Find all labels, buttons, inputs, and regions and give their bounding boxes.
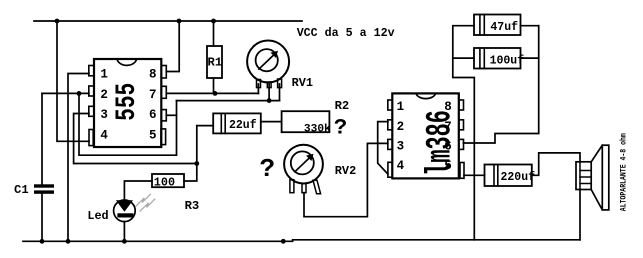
wire 100uf right lead [521,57,539,59]
resistor R1 bottom lead [213,78,215,93]
wire RV1 wiper bus to 555 pin6 [177,100,280,102]
wire LED to ground [123,222,125,242]
LED triangle [116,200,133,212]
wire 47uf right lead [521,25,539,27]
svg-text:5: 5 [149,128,157,142]
IC LM386 pin 4 stub [388,162,392,177]
svg-text:100: 100 [154,176,175,190]
IC LM386 pin 1 stub [388,100,393,110]
capacitor 22uf plates [221,113,225,133]
svg-text:22uf: 22uf [229,119,257,132]
wire VCC top rail [34,20,302,22]
LED circle [114,200,136,222]
IC LM386 pin 3 stub [388,139,393,149]
potentiometer RV1 inner circle [256,49,278,71]
svg-text:330k: 330k [304,123,331,135]
wire 22uf to 330k [261,121,282,123]
wire 100uf left lead [453,57,474,59]
ground bottom rail right segment [293,239,580,241]
node junction dot pin1 ground [66,239,71,244]
IC 555 pin 5 stub [161,129,166,145]
potentiometer RV2 right pin (bent) [313,180,321,194]
IC 555 pin 1 stub [89,66,94,76]
wire 555 pin6 stub to tie line [166,114,176,116]
wire pin2 to pin6 tie (down, across, up) [79,93,177,155]
svg-text:2: 2 [100,88,108,102]
svg-text:6: 6 [149,108,157,122]
node junction dot pin2 wire [77,91,82,96]
wire 220uf to speaker [532,153,580,175]
wire C1 bottom lead to ground [41,194,43,242]
wire LM386 pin6 to supply caps [464,26,539,143]
wire 555 pin1 to ground [68,74,89,242]
IC 555 pin 7 stub [161,86,166,98]
resistor R3 100 body [152,174,184,187]
wire C1 top lead [41,93,43,184]
node junction dot VCC-pin8 line [177,19,182,24]
node junction dot C1 ground [40,239,45,244]
resistor R2 330k body [282,111,330,132]
svg-text:RV1: RV1 [292,76,313,90]
svg-text:555: 555 [112,83,143,121]
svg-text:3: 3 [100,108,108,122]
capacitor 100uf plates [480,48,484,69]
potentiometer RV1 middle pin [267,82,271,88]
capacitor 47uf body [474,15,521,36]
capacitor 47uf plates [480,15,484,36]
IC 555 body [94,59,161,147]
IC LM386 pin 8 stub [459,100,464,110]
resistor R1 top lead [213,21,215,46]
potentiometer RV1 arrow [259,54,275,69]
svg-text:1: 1 [397,100,405,114]
svg-text:4: 4 [100,128,108,142]
capacitor C1 bottom plate [34,190,54,193]
speaker coil box [576,162,591,190]
svg-text:7: 7 [149,88,157,102]
wire RV2 wiper to LM386 pin3 [304,143,388,216]
speaker coil inner line [579,162,581,190]
IC 555 pin 2 stub [89,86,94,96]
wire 555 pin3 output (left, down, right) [74,114,197,164]
IC 555 pin 6 stub [161,110,166,121]
svg-text:R3: R3 [185,199,200,213]
svg-text:47uf: 47uf [490,21,518,34]
wire R3 to LED [124,181,152,200]
LED emission arrows (gray) [136,194,155,211]
IC 555 pin 4 stub [89,130,93,146]
svg-text:lm386: lm386 [421,110,461,176]
IC 555 pin 3 stub [89,106,94,116]
svg-text:?: ? [260,154,276,184]
wire RV1 right pin down [279,84,281,101]
svg-text:R1: R1 [208,56,223,70]
node junction dot LED ground [122,239,127,244]
wire RV1 left pin down [257,84,259,93]
IC LM386 body [392,93,459,178]
potentiometer RV2 middle pin [302,184,306,193]
node junction dot RV1 wiper [267,98,272,103]
svg-text:3: 3 [397,139,405,153]
node junction dot on ground rail [281,239,286,244]
potentiometer RV1 left pin [257,80,261,88]
node junction dot VCC-pin4 line [55,19,60,24]
speaker cone top diagonal [591,145,602,162]
node junction dot pin3 output node [194,161,199,166]
svg-text:8: 8 [149,68,157,82]
IC LM386 pin 7 stub [459,120,464,130]
svg-text:R2: R2 [335,99,350,113]
node junction dot R1-pin7 [213,91,218,96]
capacitor 100uf body [474,48,521,69]
wire 555 pin7 to RV1 left pin [166,92,258,94]
wire LM386 pin2 to pin4 (with diagonal) [378,122,388,175]
wire RV1 middle pin down [268,84,270,101]
capacitor 22uf body [213,113,261,133]
capacitor 220uf plates [494,165,498,187]
svg-text:220uf: 220uf [501,171,536,184]
svg-text:4: 4 [397,159,405,173]
svg-text:VCC da 5 a 12v: VCC da 5 a 12v [297,26,395,40]
LED cathode bar [117,213,133,217]
wire caps left side to ground [453,26,475,240]
svg-text:2: 2 [397,120,405,134]
potentiometer RV2 inner circle [291,151,314,174]
wire 555 pin8 to VCC rail [166,21,179,72]
speaker coil dividers [580,171,591,184]
capacitor 220uf body [485,165,532,187]
potentiometer RV1 right pin [278,79,282,88]
IC LM386 pin 6 stub [459,139,464,149]
speaker front panel [602,145,609,210]
wire output node up to 22uf [197,126,213,164]
wire speaker to ground [579,190,581,240]
IC 555 pin 8 stub [161,66,166,79]
IC LM386 pin 2 stub [388,120,393,130]
svg-text:100uf: 100uf [490,54,525,67]
resistor R1 body [207,46,222,78]
svg-text:C1: C1 [14,183,29,197]
svg-text:?: ? [334,115,348,141]
IC LM386 notch [416,93,435,98]
node junction dot VCC-R1 [211,19,216,24]
wire output node down to resistor R3 [184,164,197,182]
wire 555 pin2 left to C1 line [42,92,89,94]
IC 555 notch [117,59,137,65]
svg-text:RV2: RV2 [335,164,356,178]
svg-text:Led: Led [87,209,108,223]
speaker cone bottom diagonal [591,190,602,210]
IC LM386 pin 5 stub [460,163,464,179]
potentiometer RV2 outer circle [284,145,323,184]
svg-text:1: 1 [100,68,108,82]
capacitor C1 top plate [34,184,54,187]
svg-text:ALTOPARLANTE 4-8 ohm: ALTOPARLANTE 4-8 ohm [620,133,629,211]
ground bottom rail left segment [23,240,293,242]
potentiometer RV2 left pin [290,180,294,193]
wire LM386 pin5 to 220uf [464,174,485,176]
potentiometer RV2 arrow [295,157,310,172]
wire VCC to 555 pin4 (vertical + horizontal) [57,21,89,141]
potentiometer RV1 outer circle [247,41,289,83]
